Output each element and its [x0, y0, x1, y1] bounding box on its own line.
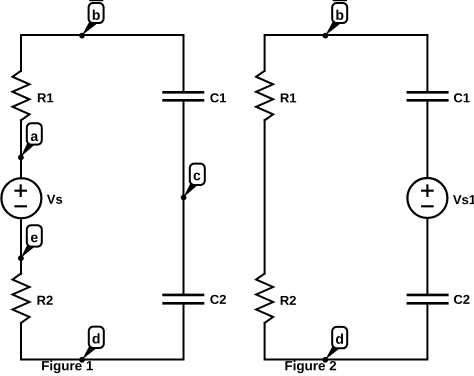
- resistor R2 (Fig 2): [256, 274, 273, 324]
- voltage source Vs: [1, 178, 41, 218]
- wire Fig2 bottom + lower left + lower right: [265, 305, 428, 360]
- node d (Fig 1): [79, 327, 104, 363]
- label R2 (Fig 1): [37, 296, 52, 305]
- label C2 (Fig 1): [210, 295, 226, 304]
- wire Fig2 top + upper left + upper right: [265, 35, 428, 91]
- label Vs (Fig 1): [47, 195, 62, 204]
- label R2 (Fig 2): [281, 296, 296, 305]
- resistor R2 (Fig 1): [13, 274, 30, 324]
- capacitor C2 (Fig 2): [407, 295, 449, 303]
- node b (Fig 2): [323, 0, 348, 38]
- caption Figure 2: [285, 361, 336, 374]
- node e (Fig 1): [18, 225, 42, 261]
- wire Fig1 R1 to Vs: [20, 120, 22, 178]
- capacitor C2 (Fig 1): [162, 295, 204, 303]
- caption Figure 1: [42, 361, 93, 374]
- wire Fig1 right middle (C1 to C2): [183, 102, 185, 294]
- label C2 (Fig 2): [454, 295, 470, 304]
- capacitor C1 (Fig 1): [162, 92, 204, 100]
- node a (Fig 1): [18, 123, 42, 160]
- label R1 (Fig 1): [38, 93, 53, 102]
- wire Fig2 Vs1 to C2: [426, 218, 428, 293]
- node c (Fig 1): [181, 164, 205, 201]
- label R1 (Fig 2): [281, 93, 296, 102]
- wire Fig2 C1 to Vs1: [426, 102, 428, 178]
- wire Fig1 Vs to R2: [20, 219, 22, 274]
- resistor R1 (Fig 2): [256, 71, 273, 121]
- capacitor C1 (Fig 2): [407, 92, 449, 100]
- label C1 (Fig 2): [454, 93, 470, 102]
- wire Fig2 left middle (R1 to R2): [264, 120, 266, 273]
- node d (Fig 2): [322, 327, 347, 363]
- label Vs1 (Fig 2): [453, 195, 474, 204]
- voltage source Vs1: [407, 178, 447, 218]
- resistor R1 (Fig 1): [13, 71, 30, 121]
- label C1 (Fig 1): [210, 93, 226, 102]
- wire Fig1 bottom + lower left + lower right: [21, 305, 184, 360]
- node b (Fig 1): [79, 0, 104, 38]
- wire Fig1 top + upper left + upper right: [21, 35, 184, 91]
